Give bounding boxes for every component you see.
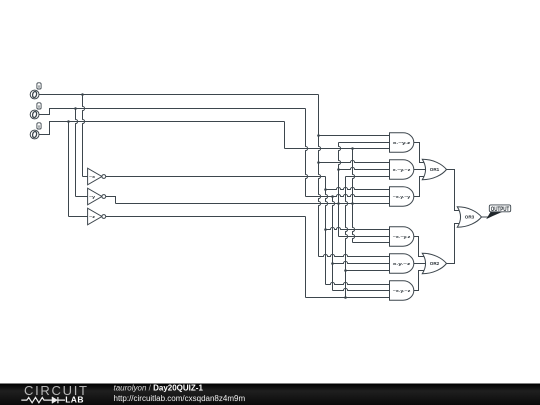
wire AND1 mid input	[339, 142, 390, 144]
wire U3 output ~z	[106, 216, 306, 218]
wire AND5 top input	[319, 254, 390, 256]
wire x-row	[39, 94, 319, 96]
svg-text:taurolyon / Day20QUIZ-1: taurolyon / Day20QUIZ-1	[113, 384, 203, 393]
wire ~y vertical	[339, 143, 341, 237]
node J5	[351, 147, 354, 150]
wire AND2 top input	[319, 160, 390, 162]
node J6	[317, 161, 320, 164]
wire ~y row	[116, 203, 390, 205]
wire OR1 out	[447, 170, 462, 211]
wire AND6 bot row	[306, 297, 390, 299]
svg-text:x.~y.~z: x.~y.~z	[393, 167, 411, 172]
switch SW3 input z	[30, 123, 41, 139]
wire y branch vertical	[333, 197, 335, 291]
logo CIRCUIT LAB	[21, 383, 90, 404]
wire AND5 mid input	[333, 261, 390, 263]
wire AND4 top input	[326, 227, 390, 229]
wire z vertical	[353, 149, 355, 243]
wire ~z vertical	[346, 177, 348, 298]
AND gate AND5	[390, 254, 414, 273]
wire OR3 out	[481, 216, 489, 218]
wire AND6 mid input	[333, 288, 390, 290]
inverter U3 ~z	[88, 208, 106, 225]
wire AND4 bot input	[353, 242, 390, 244]
wire U2 output jog	[106, 197, 116, 204]
wire x to inverter U1	[83, 95, 85, 177]
wire ~z left drop	[305, 217, 307, 298]
wire AND4 out	[414, 237, 427, 257]
OR gate OR2	[422, 253, 446, 273]
node J1	[81, 93, 84, 96]
node J12	[324, 228, 327, 231]
wire AND3 top input	[326, 187, 390, 189]
node J4	[317, 134, 320, 137]
wire z-row	[39, 122, 285, 135]
svg-text:x.y.~z: x.y.~z	[393, 261, 411, 266]
svg-text:x.~y.z: x.~y.z	[393, 140, 411, 145]
svg-text:~x: ~x	[89, 174, 96, 179]
wire U1 output ~x	[106, 176, 326, 178]
svg-text:OUTPUT: OUTPUT	[491, 207, 510, 213]
wire AND1 out	[414, 143, 427, 163]
wire U2 input stub	[76, 196, 88, 198]
svg-text:~x.y.~y: ~x.y.~y	[393, 194, 412, 199]
wire AND4 mid input	[339, 236, 390, 238]
node J14	[344, 269, 347, 272]
node J7	[337, 168, 340, 171]
node J9	[331, 195, 334, 198]
wire AND6 top input	[326, 282, 390, 284]
wire y vertical vA	[306, 109, 308, 197]
node J11	[351, 202, 354, 205]
wire AND1 top input	[319, 135, 390, 137]
AND gate AND4	[390, 227, 414, 246]
AND gate AND6	[390, 281, 414, 300]
node J8	[324, 188, 327, 191]
OR gate OR1	[422, 159, 446, 179]
svg-text:~x.~y.z: ~x.~y.z	[393, 234, 411, 239]
svg-text:~y: ~y	[89, 194, 96, 199]
AND gate AND2	[390, 160, 414, 179]
wire AND6 out	[414, 271, 427, 291]
switch SW1 input x	[30, 83, 41, 99]
wire AND3 out	[414, 177, 427, 197]
wire AND5 out	[414, 263, 427, 265]
OR gate OR3	[457, 207, 481, 227]
wire z-row2 to AND1	[285, 148, 390, 150]
output flag OUTPUT	[488, 205, 511, 218]
node J10	[337, 202, 340, 205]
wire z to inverter U3	[68, 122, 70, 217]
svg-text:~x.y.~z: ~x.y.~z	[393, 288, 411, 293]
wire U3 input stub	[69, 216, 88, 218]
svg-text:http://circuitlab.com/cxsqdan8: http://circuitlab.com/cxsqdan8z4m9m	[113, 394, 245, 403]
wire OR2 out	[447, 224, 462, 264]
wire AND2 bot input	[346, 176, 390, 178]
wire z drop	[284, 122, 286, 149]
wire y-row	[39, 109, 306, 115]
wire U1 input stub	[83, 176, 88, 178]
node J3	[67, 120, 70, 123]
svg-text:OR1: OR1	[430, 167, 440, 172]
wire AND2 mid input	[339, 167, 390, 169]
wire ~x vertical	[326, 177, 328, 285]
wire AND2 out	[414, 169, 427, 171]
wire x vertical vB	[319, 95, 321, 257]
svg-text:OR3: OR3	[465, 215, 475, 220]
AND gate AND3	[390, 187, 414, 206]
svg-text:LAB: LAB	[65, 394, 84, 404]
AND gate AND1	[390, 133, 414, 152]
node J13	[331, 262, 334, 265]
wire AND5 bot input	[346, 270, 390, 272]
node J15	[344, 296, 347, 299]
wire AND3 mid input	[306, 194, 390, 196]
svg-text:OR2: OR2	[430, 261, 440, 266]
inverter U2 ~y	[88, 188, 106, 205]
inverter U1 ~x	[88, 168, 106, 185]
node J2	[74, 107, 77, 110]
svg-text:~z: ~z	[89, 214, 95, 219]
wire y to inverter U2	[76, 109, 78, 197]
switch SW2 input y	[30, 103, 41, 119]
